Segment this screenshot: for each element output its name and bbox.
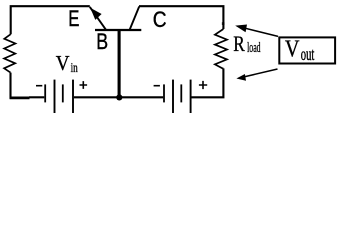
wire left rail bottom to battery Vin (9, 73, 11, 99)
transistor Q1 collector lead (130, 7, 140, 30)
battery V1 (Vin source) (45, 80, 73, 113)
wire battery V1 to base junction (74, 96, 119, 98)
transistor Q1 base lead (bold) (118, 30, 121, 97)
wire junction to battery V2 (119, 96, 163, 98)
svg-text:R: R (233, 31, 245, 56)
transistor Q1 base bar (95, 29, 141, 31)
polarity minus (V1) (36, 85, 42, 87)
svg-text:B: B (96, 29, 108, 54)
svg-text:out: out (301, 44, 315, 64)
resistor Rload (215, 29, 227, 68)
transistor Q1 emitter with arrow (90, 7, 106, 30)
polarity plus (V1) (80, 81, 88, 89)
svg-text:C: C (153, 7, 167, 32)
polarity plus (V2) (199, 81, 207, 89)
svg-text:V: V (285, 36, 300, 63)
arrow to Rload top (243, 28, 278, 37)
svg-text:E: E (68, 6, 79, 31)
wire top-left horizontal and left rail (11, 6, 90, 34)
resistor R1 (input series resistor) (4, 34, 15, 72)
svg-text:load: load (247, 40, 261, 56)
battery V2 (output bias source) (164, 80, 191, 113)
svg-text:in: in (71, 61, 78, 76)
wire right rail top and collector wire (139, 6, 223, 29)
svg-text:V: V (56, 51, 70, 75)
wire joint nub on right rail (222, 22, 225, 25)
arrow to Rload bottom (244, 69, 278, 77)
box Vout (279, 37, 335, 63)
polarity minus (V2) (154, 85, 160, 87)
wire battery V2 to bottom-right corner and right rail (191, 68, 223, 97)
node base junction dot (116, 94, 122, 100)
